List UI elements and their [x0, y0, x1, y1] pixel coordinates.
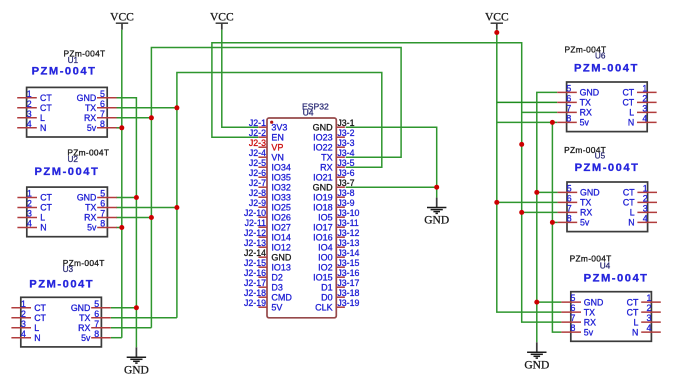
svg-text:J3-3: J3-3 — [337, 138, 354, 148]
ESP32 pin J3-13 — [336, 246, 345, 248]
ESP32 pin J3-17 — [336, 286, 345, 288]
ESP32 pin J3-18 — [336, 296, 345, 298]
svg-text:1: 1 — [642, 84, 647, 94]
wire R2 rail to U5 RX — [522, 211, 558, 213]
ESP32 pin J2-9 — [258, 206, 267, 208]
svg-text:J2-7: J2-7 — [249, 178, 266, 188]
svg-text:CT: CT — [40, 93, 52, 103]
svg-text:U4: U4 — [303, 107, 314, 117]
wire U1 RX to bus — [116, 117, 151, 119]
wire U1 TX to bus — [116, 107, 177, 109]
svg-text:5v: 5v — [87, 223, 97, 233]
svg-text:8: 8 — [100, 219, 105, 229]
svg-text:TX: TX — [85, 103, 96, 113]
U2 pin 2 CT — [17, 207, 37, 209]
junction U6 5v — [550, 120, 555, 125]
ESP32 pin J3-10 — [336, 216, 345, 218]
svg-text:5: 5 — [566, 84, 571, 94]
ESP32 pin J3-9 — [336, 206, 345, 208]
svg-text:TX: TX — [85, 203, 96, 213]
svg-text:U4: U4 — [600, 261, 611, 270]
svg-text:GND: GND — [580, 188, 600, 198]
U1 pin 8 5v — [97, 127, 117, 129]
svg-text:CT: CT — [623, 198, 635, 208]
svg-text:RX: RX — [580, 108, 592, 118]
U3 pin 4 N — [11, 337, 31, 339]
svg-text:PZM-004T: PZM-004T — [575, 162, 640, 174]
svg-text:J3-5: J3-5 — [337, 158, 354, 168]
U6 pin 4 N — [637, 121, 657, 123]
svg-text:8: 8 — [94, 329, 99, 339]
U5 pin 3 L — [637, 211, 657, 213]
svg-text:5v: 5v — [580, 218, 590, 228]
wire U3 RX to bus — [111, 327, 152, 329]
svg-text:3: 3 — [27, 209, 32, 219]
svg-text:D2: D2 — [271, 273, 283, 283]
U5 pin 6 TX — [558, 201, 578, 203]
svg-text:J2-17: J2-17 — [244, 278, 266, 288]
svg-text:J3-18: J3-18 — [337, 288, 359, 298]
U3 pin 5 GND — [91, 307, 111, 309]
svg-text:U3: U3 — [63, 265, 74, 274]
svg-text:IO5: IO5 — [318, 213, 333, 223]
wire VCC right rail R1 — [497, 30, 562, 312]
svg-text:D1: D1 — [321, 283, 333, 293]
svg-text:L: L — [40, 213, 45, 223]
ESP32 pin J3-2 — [336, 136, 345, 138]
junction U1 TX — [174, 105, 179, 110]
wire U2 RX to bus — [116, 217, 151, 219]
svg-text:J2-2: J2-2 — [249, 128, 266, 138]
svg-text:CLK: CLK — [315, 303, 333, 313]
svg-text:2: 2 — [642, 94, 647, 104]
U2 pin 8 5v — [97, 227, 117, 229]
U3 pin 8 5v — [91, 337, 111, 339]
svg-text:IO26: IO26 — [271, 213, 291, 223]
svg-text:J3-11: J3-11 — [337, 218, 358, 228]
svg-text:IO15: IO15 — [313, 273, 333, 283]
junction U5 GND — [534, 190, 539, 195]
svg-text:IO27: IO27 — [271, 223, 291, 233]
wire R4 to U5 5v — [552, 221, 557, 223]
wire U2 TX to bus — [116, 207, 177, 209]
junction U2 RX — [149, 215, 154, 220]
svg-text:IO4: IO4 — [318, 243, 333, 253]
svg-text:J2-3: J2-3 — [249, 138, 266, 148]
U1 pin 4 N — [17, 127, 37, 129]
svg-text:5v: 5v — [87, 123, 97, 133]
junction U5 RX — [519, 210, 524, 215]
svg-text:7: 7 — [100, 109, 105, 119]
svg-text:J3-14: J3-14 — [337, 248, 359, 258]
svg-text:RX: RX — [78, 323, 90, 333]
ESP32 pin J3-8 — [336, 196, 345, 198]
svg-text:J3-17: J3-17 — [337, 278, 359, 288]
junction ESP32 J3-7 GND — [434, 185, 439, 190]
junction U2 TX — [174, 205, 179, 210]
svg-text:J2-19: J2-19 — [244, 298, 266, 308]
svg-text:J2-8: J2-8 — [249, 188, 266, 198]
U1 pin 7 RX — [97, 117, 117, 119]
svg-text:N: N — [34, 333, 40, 343]
svg-text:5: 5 — [567, 184, 572, 194]
U3 pin 2 CT — [11, 317, 31, 319]
ESP32 pin J3-19 — [336, 306, 345, 308]
svg-text:5: 5 — [571, 293, 576, 303]
svg-text:8: 8 — [566, 114, 571, 124]
svg-text:CT: CT — [34, 303, 46, 313]
svg-text:IO2: IO2 — [318, 263, 333, 273]
svg-text:RX: RX — [580, 208, 592, 218]
svg-text:CT: CT — [40, 193, 52, 203]
svg-text:J2-18: J2-18 — [244, 288, 266, 298]
svg-text:7: 7 — [100, 209, 105, 219]
svg-text:4: 4 — [647, 323, 652, 333]
svg-text:TX: TX — [321, 153, 333, 163]
svg-text:GND: GND — [313, 123, 334, 133]
junction U3 GND — [134, 305, 139, 310]
svg-text:1: 1 — [647, 293, 652, 303]
svg-text:PZM-004T: PZM-004T — [32, 66, 97, 78]
svg-text:IO13: IO13 — [271, 263, 291, 273]
svg-text:J2-6: J2-6 — [249, 168, 266, 178]
wire R2 rail to U6 RX — [522, 111, 558, 113]
svg-text:IO33: IO33 — [271, 193, 291, 203]
svg-text:L: L — [630, 208, 635, 218]
U2 pin 6 TX — [97, 207, 117, 209]
svg-text:4: 4 — [27, 119, 32, 129]
U6 pin 6 TX — [557, 101, 577, 103]
wire GND left rail — [116, 98, 136, 347]
U2 pin 4 N — [17, 227, 37, 229]
svg-text:TX: TX — [580, 198, 591, 208]
svg-text:IO32: IO32 — [271, 183, 291, 193]
svg-text:J2-13: J2-13 — [244, 238, 266, 248]
svg-text:6: 6 — [100, 99, 105, 109]
svg-text:RX: RX — [84, 213, 96, 223]
U2 pin 5 GND — [97, 197, 117, 199]
svg-text:6: 6 — [94, 309, 99, 319]
svg-text:3: 3 — [643, 204, 648, 214]
svg-text:GND: GND — [77, 193, 97, 203]
svg-text:U6: U6 — [595, 52, 606, 61]
ESP32 pin J3-6 — [336, 176, 345, 178]
U1 pin 5 GND — [97, 97, 117, 99]
svg-text:D3: D3 — [271, 283, 283, 293]
svg-text:J3-1: J3-1 — [337, 118, 354, 128]
svg-text:J3-8: J3-8 — [337, 188, 354, 198]
svg-text:1: 1 — [21, 299, 26, 309]
svg-text:1: 1 — [27, 89, 32, 99]
svg-text:2: 2 — [647, 303, 652, 313]
svg-text:GND: GND — [580, 88, 600, 98]
svg-text:4: 4 — [21, 329, 26, 339]
wire U2 5v to VCC rail — [116, 227, 122, 229]
ESP32 pin J2-18 — [258, 296, 267, 298]
junction U5 5v — [550, 220, 555, 225]
svg-text:N: N — [40, 223, 46, 233]
svg-text:L: L — [40, 113, 45, 123]
svg-text:CT: CT — [34, 313, 46, 323]
U6 pin 1 CT — [637, 91, 657, 93]
U5 pin 4 N — [637, 221, 657, 223]
svg-text:GND: GND — [271, 253, 292, 263]
junction VCC right — [494, 30, 499, 35]
svg-text:J2-14: J2-14 — [244, 248, 266, 258]
svg-text:J3-7: J3-7 — [337, 178, 354, 188]
svg-text:6: 6 — [566, 94, 571, 104]
ESP32 pin J3-12 — [336, 236, 345, 238]
svg-text:TX: TX — [580, 98, 591, 108]
svg-text:U5: U5 — [595, 152, 606, 161]
svg-text:GND: GND — [313, 183, 334, 193]
svg-text:4: 4 — [27, 219, 32, 229]
svg-text:TX: TX — [79, 313, 90, 323]
svg-text:IO16: IO16 — [313, 233, 333, 243]
svg-text:GND: GND — [584, 297, 604, 307]
svg-text:5V: 5V — [271, 303, 282, 313]
ESP32 pin J2-19 — [258, 306, 267, 308]
ESP32 pin J2-10 — [258, 216, 267, 218]
svg-text:RX: RX — [584, 317, 596, 327]
wire ESP32 GND J3-1 down to GND — [346, 127, 437, 197]
svg-text:J3-15: J3-15 — [337, 258, 359, 268]
svg-text:J2-1: J2-1 — [249, 118, 266, 128]
power symbol GND bottom-left — [135, 347, 137, 357]
wire R1 to U6 5v — [497, 121, 557, 123]
svg-text:VP: VP — [271, 143, 283, 153]
power symbol GND middle — [436, 198, 438, 208]
U4 pin 3 L — [641, 321, 661, 323]
junction U2 5v — [119, 225, 124, 230]
svg-text:IO35: IO35 — [271, 173, 291, 183]
svg-text:VN: VN — [271, 153, 284, 163]
svg-text:5v: 5v — [584, 327, 594, 337]
U5 pin 7 RX — [558, 211, 578, 213]
wire R1 to U6 TX — [497, 101, 557, 103]
ESP32 pin J3-11 — [336, 226, 345, 228]
ESP32 pin J3-5 — [336, 166, 345, 168]
svg-text:IO14: IO14 — [271, 233, 291, 243]
svg-text:2: 2 — [27, 99, 32, 109]
junction on EN rail — [519, 142, 524, 147]
wire U2 GND to rail — [116, 197, 136, 199]
svg-text:D0: D0 — [321, 293, 333, 303]
U2 pin 7 RX — [97, 217, 117, 219]
svg-text:4: 4 — [642, 114, 647, 124]
wire U3 GND to rail — [111, 307, 137, 309]
U1 pin 3 L — [17, 117, 37, 119]
svg-text:RX: RX — [320, 163, 333, 173]
U5 pin 2 CT — [637, 201, 657, 203]
svg-text:2: 2 — [27, 199, 32, 209]
U1 pin 2 CT — [17, 107, 37, 109]
svg-text:N: N — [40, 123, 46, 133]
svg-text:J3-16: J3-16 — [337, 268, 359, 278]
svg-text:J3-19: J3-19 — [337, 298, 359, 308]
svg-text:J2-15: J2-15 — [244, 258, 266, 268]
ESP32 pin J2-17 — [258, 286, 267, 288]
power symbol GND bottom-right — [536, 342, 538, 352]
ESP32 pin J3-15 — [336, 266, 345, 268]
U5 pin 1 CT — [637, 191, 657, 193]
svg-text:2: 2 — [21, 309, 26, 319]
svg-text:PZM-004T: PZM-004T — [34, 166, 99, 178]
wire R1 to U5 TX — [497, 201, 558, 203]
svg-text:EN: EN — [271, 133, 284, 143]
svg-text:CT: CT — [627, 297, 639, 307]
svg-text:IO25: IO25 — [271, 203, 291, 213]
svg-text:IO34: IO34 — [271, 163, 291, 173]
svg-text:L: L — [629, 108, 634, 118]
svg-text:3V3: 3V3 — [271, 123, 287, 133]
svg-text:IO12: IO12 — [271, 243, 291, 253]
U5 pin 5 GND — [558, 191, 578, 193]
svg-text:3: 3 — [647, 313, 652, 323]
svg-text:3: 3 — [21, 319, 26, 329]
svg-text:CT: CT — [627, 307, 639, 317]
svg-text:3: 3 — [642, 104, 647, 114]
svg-text:PZM-004T: PZM-004T — [574, 62, 639, 74]
svg-text:J3-10: J3-10 — [337, 208, 359, 218]
wire ESP32 GND J3-7 — [346, 186, 437, 188]
wire U3 5v to VCC rail — [111, 337, 122, 339]
svg-text:6: 6 — [567, 194, 572, 204]
ESP32 pin J2-1 — [258, 126, 267, 128]
svg-text:5: 5 — [94, 299, 99, 309]
ESP32 pin J2-5 — [258, 166, 267, 168]
svg-text:6: 6 — [571, 303, 576, 313]
svg-text:8: 8 — [100, 119, 105, 129]
U4 pin 7 RX — [561, 321, 581, 323]
svg-text:IO18: IO18 — [313, 203, 333, 213]
svg-text:J2-4: J2-4 — [249, 148, 266, 158]
wire VCC mid to ESP32 3V3 — [222, 30, 258, 127]
U3 pin 6 TX — [91, 317, 111, 319]
svg-text:7: 7 — [571, 313, 576, 323]
junction U1 RX — [149, 115, 154, 120]
svg-text:IO17: IO17 — [313, 223, 333, 233]
U4 pin 5 GND — [561, 301, 581, 303]
svg-text:J2-11: J2-11 — [245, 218, 266, 228]
svg-text:PZM-004T: PZM-004T — [584, 273, 649, 285]
U3 pin 1 CT — [11, 307, 31, 309]
U6 pin 2 CT — [637, 101, 657, 103]
svg-text:7: 7 — [566, 104, 571, 114]
svg-text:5v: 5v — [580, 118, 590, 128]
U4 pin 4 N — [641, 331, 661, 333]
ESP32 pin J3-1 — [336, 126, 345, 128]
svg-text:IO21: IO21 — [313, 173, 333, 183]
U1 pin 6 TX — [97, 107, 117, 109]
U5 pin 8 5v — [558, 221, 578, 223]
svg-text:IO23: IO23 — [313, 133, 333, 143]
svg-text:3: 3 — [27, 109, 32, 119]
svg-text:IO0: IO0 — [318, 253, 333, 263]
svg-text:J2-5: J2-5 — [249, 158, 266, 168]
svg-text:1: 1 — [27, 189, 32, 199]
svg-text:7: 7 — [94, 319, 99, 329]
svg-text:U2: U2 — [67, 155, 78, 164]
svg-text:RX: RX — [84, 113, 96, 123]
svg-text:N: N — [628, 218, 634, 228]
U2 pin 1 CT — [17, 197, 37, 199]
ESP32 pin J2-14 — [258, 256, 267, 258]
wire GND right rail R3 — [537, 92, 557, 342]
svg-text:U1: U1 — [68, 56, 79, 65]
svg-text:L: L — [633, 317, 638, 327]
wire R3 to U5 GND — [537, 191, 558, 193]
ESP32 pin J2-13 — [258, 246, 267, 248]
svg-text:GND: GND — [77, 93, 97, 103]
svg-text:8: 8 — [571, 323, 576, 333]
junction U1 5v — [119, 125, 124, 130]
U3 pin 7 RX — [91, 327, 111, 329]
ESP32 pin J2-8 — [258, 196, 267, 198]
svg-text:8: 8 — [567, 214, 572, 224]
svg-text:PZM-004T: PZM-004T — [29, 279, 94, 291]
U4 pin 6 TX — [561, 311, 581, 313]
svg-text:N: N — [632, 327, 638, 337]
wire ESP32 RX to left modules TX bus — [177, 73, 382, 318]
U6 pin 3 L — [637, 111, 657, 113]
ESP32 pin J3-14 — [336, 256, 345, 258]
svg-text:5: 5 — [100, 89, 105, 99]
ESP32 pin J2-11 — [258, 226, 267, 228]
U4 pin 2 CT — [641, 311, 661, 313]
U4 pin 1 CT — [641, 301, 661, 303]
svg-text:J3-6: J3-6 — [337, 168, 354, 178]
wire 5v right rail R4 — [552, 122, 561, 332]
junction U4 GND — [534, 300, 539, 305]
ESP32 pin 1 marker dot — [270, 121, 273, 124]
svg-text:VCC: VCC — [210, 11, 234, 23]
wire R3 to U4 GND — [537, 301, 562, 303]
U4 pin 8 5v — [561, 331, 581, 333]
svg-text:CMD: CMD — [271, 293, 292, 303]
svg-text:J2-9: J2-9 — [249, 198, 266, 208]
svg-text:CT: CT — [622, 98, 634, 108]
ESP32 pin J2-16 — [258, 276, 267, 278]
wire VCC left rail vertical — [121, 30, 123, 338]
ESP32 pin J2-6 — [258, 176, 267, 178]
junction U5 TX — [494, 200, 499, 205]
svg-text:VCC: VCC — [485, 11, 509, 23]
U3 pin 3 L — [11, 327, 31, 329]
svg-text:1: 1 — [643, 184, 648, 194]
svg-text:J3-4: J3-4 — [337, 148, 354, 158]
ESP32 pin J2-4 — [258, 156, 267, 158]
svg-text:J3-13: J3-13 — [337, 238, 359, 248]
svg-text:CT: CT — [40, 103, 52, 113]
ESP32 pin J3-7 — [336, 186, 345, 188]
svg-text:N: N — [628, 118, 634, 128]
U1 pin 1 CT — [17, 97, 37, 99]
wire U3 TX to bus — [111, 317, 177, 319]
svg-text:J2-12: J2-12 — [244, 228, 266, 238]
ESP32 pin J3-16 — [336, 276, 345, 278]
svg-text:7: 7 — [567, 204, 572, 214]
ESP32 pin J2-7 — [258, 186, 267, 188]
ESP32 pin J3-3 — [336, 146, 345, 148]
ESP32 pin J2-12 — [258, 236, 267, 238]
U6 pin 8 5v — [557, 121, 577, 123]
svg-text:J3-12: J3-12 — [337, 228, 359, 238]
svg-text:CT: CT — [622, 88, 634, 98]
svg-text:CT: CT — [40, 203, 52, 213]
svg-text:GND: GND — [424, 215, 449, 227]
wire ESP32 TX to left modules RX bus — [151, 48, 401, 328]
